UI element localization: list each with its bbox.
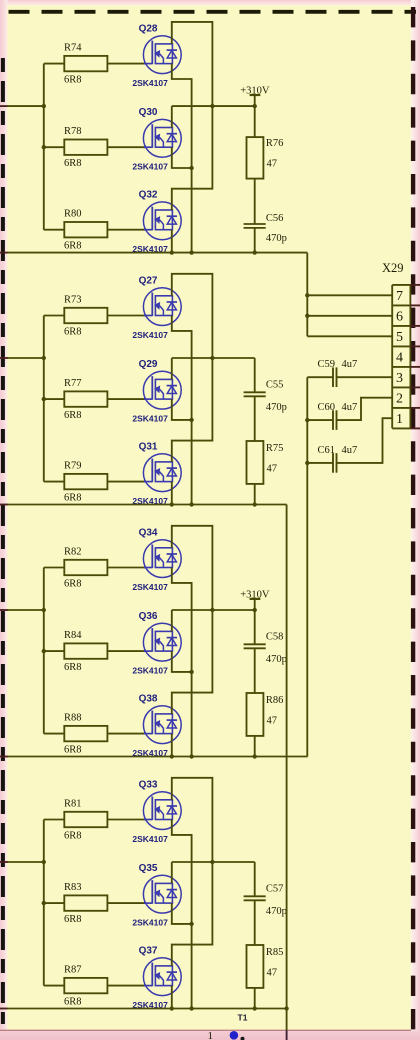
wire snubber stem group 1 <box>254 106 256 137</box>
capacitor C57 470p <box>244 883 287 916</box>
wire drain rail group 2 <box>171 358 173 379</box>
wire drain bus group 2 <box>172 274 215 462</box>
svg-text:Q28: Q28 <box>139 23 158 34</box>
wire R73 left <box>44 315 65 317</box>
svg-text:R87: R87 <box>64 965 82 976</box>
svg-text:470p: 470p <box>266 233 287 244</box>
transistor Q37 2SK4107 <box>132 945 181 1010</box>
wire R76 to C56 <box>254 179 256 224</box>
wire node B separator group 3 <box>0 756 308 758</box>
svg-text:C58: C58 <box>266 631 284 642</box>
svg-text:Q32: Q32 <box>139 190 158 201</box>
wire C61 to pin 1 <box>337 418 393 463</box>
svg-text:6R8: 6R8 <box>64 326 82 337</box>
svg-text:2SK4107: 2SK4107 <box>132 330 168 340</box>
svg-text:6R8: 6R8 <box>64 493 82 504</box>
svg-text:470p: 470p <box>266 654 287 665</box>
svg-text:Q35: Q35 <box>139 863 158 874</box>
wire R73 to gate <box>107 315 145 317</box>
svg-text:2SK4107: 2SK4107 <box>132 665 168 675</box>
wire R82 to gate <box>107 567 145 569</box>
power +310V group 1 <box>240 86 270 109</box>
svg-text:R79: R79 <box>64 461 82 472</box>
resistor R73 <box>64 295 107 338</box>
wire snubber stem group 3 <box>254 610 256 644</box>
connector X29 <box>382 261 420 428</box>
wire source chain group 1 <box>170 64 194 255</box>
svg-text:2SK4107: 2SK4107 <box>132 582 168 592</box>
resistor R79 <box>64 461 107 504</box>
transistor Q35 2SK4107 <box>132 863 181 928</box>
svg-text:R76: R76 <box>266 138 284 149</box>
svg-text:+310V: +310V <box>240 590 270 601</box>
wire node A separator group 1 <box>0 252 307 254</box>
wire gate drive input group 2 <box>0 357 44 359</box>
svg-text:2SK4107: 2SK4107 <box>132 834 168 844</box>
transistor Q29 2SK4107 <box>132 359 181 424</box>
svg-text:5: 5 <box>396 330 403 345</box>
transformer T1 polarity dot <box>230 1031 239 1040</box>
wire C60 to pin 2 <box>337 398 393 420</box>
svg-text:47: 47 <box>267 463 278 474</box>
svg-text:1: 1 <box>208 1030 214 1040</box>
wire R81 to gate <box>107 819 145 821</box>
svg-text:2SK4107: 2SK4107 <box>132 413 168 423</box>
resistor R76 47 <box>247 137 284 179</box>
wire pin 7 <box>307 294 392 296</box>
wire ground separator group 4 <box>0 1006 289 1010</box>
node gate bus group 3 <box>42 568 46 734</box>
wire drain rail group 4 <box>171 862 173 883</box>
resistor R85 47 <box>247 945 284 988</box>
schematic frame dashed border right <box>411 7 415 1031</box>
resistor R81 <box>64 799 107 842</box>
wire R74 to gate <box>107 63 145 65</box>
svg-text:7: 7 <box>396 289 403 304</box>
svg-text:Q29: Q29 <box>139 359 158 370</box>
wire C61 left <box>307 462 333 464</box>
svg-text:6R8: 6R8 <box>64 830 82 841</box>
svg-text:R86: R86 <box>266 695 284 706</box>
wire R74 left <box>44 63 65 65</box>
wire R79 left <box>44 481 65 483</box>
wire R75 to separator <box>253 484 257 507</box>
wire separator group 2 <box>0 504 287 506</box>
resistor R82 <box>64 547 107 590</box>
svg-text:470p: 470p <box>266 906 287 917</box>
wire R84 to gate <box>107 650 145 652</box>
svg-text:R84: R84 <box>64 630 82 641</box>
resistor R86 47 <box>247 693 284 736</box>
capacitor C58 470p <box>244 631 287 664</box>
capacitor C61 4u7 <box>318 445 358 473</box>
wire drain bus group 3 <box>172 526 215 714</box>
svg-text:R73: R73 <box>64 295 82 306</box>
transistor Q28 2SK4107 <box>132 23 181 88</box>
wire drain rail group 1 <box>171 106 173 127</box>
svg-text:C61: C61 <box>318 445 336 456</box>
svg-text:4: 4 <box>396 350 403 365</box>
svg-text:Q33: Q33 <box>139 779 158 790</box>
svg-text:47: 47 <box>267 159 278 170</box>
resistor R77 <box>64 378 107 421</box>
svg-text:470p: 470p <box>266 402 287 413</box>
wire C57 to R85 <box>254 900 256 945</box>
svg-text:6R8: 6R8 <box>64 410 82 421</box>
wire C60 left <box>307 419 333 421</box>
svg-text:4u7: 4u7 <box>342 359 358 370</box>
wire drain bus group 1 <box>172 22 215 210</box>
node B capacitor bus <box>305 377 309 756</box>
svg-text:R85: R85 <box>266 947 284 958</box>
wire snubber stem group 2 <box>254 358 256 392</box>
wire pin 6 <box>307 315 392 317</box>
svg-text:R88: R88 <box>64 713 82 724</box>
node gate bus group 2 <box>42 316 46 482</box>
wire R87 left <box>44 985 65 987</box>
svg-text:Q34: Q34 <box>139 527 158 538</box>
wire R82 left <box>44 567 65 569</box>
node A bus to pins 7 6 5 <box>305 253 309 337</box>
resistor R80 <box>64 209 107 252</box>
svg-text:6R8: 6R8 <box>64 997 82 1008</box>
wire R81 left <box>44 819 65 821</box>
node gate bus group 4 <box>42 820 46 986</box>
wire source chain group 3 <box>170 568 194 759</box>
wire R86 to separator <box>253 736 257 759</box>
wire R88 left <box>44 733 65 735</box>
svg-text:3: 3 <box>396 371 403 386</box>
wire R78 left <box>44 146 65 148</box>
svg-text:X29: X29 <box>382 261 404 275</box>
svg-text:C57: C57 <box>266 883 284 894</box>
wire R83 left <box>44 902 65 904</box>
wire gate drive input group 4 <box>0 861 44 863</box>
wire C59 to pin 3 <box>337 376 393 378</box>
transistor Q38 2SK4107 <box>132 693 181 758</box>
transistor Q31 2SK4107 <box>132 441 181 506</box>
svg-text:Q38: Q38 <box>139 693 158 704</box>
resistor R84 <box>64 630 107 673</box>
svg-text:6R8: 6R8 <box>64 158 82 169</box>
transistor Q33 2SK4107 <box>132 779 181 844</box>
wire C56 to separator <box>253 228 257 255</box>
svg-text:C59: C59 <box>318 359 336 370</box>
svg-text:R83: R83 <box>64 882 82 893</box>
wire source chain group 2 <box>170 316 194 507</box>
schematic frame dashed border left <box>1 58 5 1024</box>
svg-text:Q30: Q30 <box>139 107 158 118</box>
wire snubber stem group 4 <box>254 862 256 896</box>
wire C58 to R86 <box>254 648 256 693</box>
node gate bus group 1 <box>42 64 46 230</box>
svg-text:R74: R74 <box>64 43 82 54</box>
wire gate drive input group 1 <box>0 105 44 107</box>
resistor R75 47 <box>247 441 284 484</box>
svg-text:4u7: 4u7 <box>342 402 358 413</box>
svg-text:6R8: 6R8 <box>64 745 82 756</box>
svg-text:6: 6 <box>396 309 403 324</box>
svg-text:C55: C55 <box>266 379 284 390</box>
wire gate drive input group 3 <box>0 609 44 611</box>
wire R84 left <box>44 650 65 652</box>
wire R80 left <box>44 229 65 231</box>
svg-text:C60: C60 <box>318 402 336 413</box>
svg-text:6R8: 6R8 <box>64 75 82 86</box>
wire drain bus group 4 <box>172 778 215 966</box>
svg-text:6R8: 6R8 <box>64 241 82 252</box>
svg-text:Q27: Q27 <box>139 275 158 286</box>
resistor R74 <box>64 43 107 86</box>
wire C59 left <box>307 376 333 378</box>
resistor R87 <box>64 965 107 1008</box>
capacitor C56 470p <box>244 213 287 244</box>
svg-text:6R8: 6R8 <box>64 914 82 925</box>
schematic frame dashed border top <box>9 10 417 14</box>
resistor R88 <box>64 713 107 756</box>
transistor Q32 2SK4107 <box>132 190 181 255</box>
svg-text:47: 47 <box>267 715 278 726</box>
svg-text:47: 47 <box>267 967 278 978</box>
svg-text:R77: R77 <box>64 378 82 389</box>
svg-text:C56: C56 <box>266 213 284 224</box>
wire R78 to gate <box>107 146 145 148</box>
wire C55 to R75 <box>254 396 256 441</box>
svg-text:+310V: +310V <box>240 86 270 97</box>
svg-text:R80: R80 <box>64 209 82 220</box>
power +310V group 3 <box>240 590 270 613</box>
svg-text:R75: R75 <box>266 443 284 454</box>
svg-text:R82: R82 <box>64 547 82 558</box>
wire source chain group 4 <box>170 820 194 1011</box>
resistor R78 <box>64 126 107 169</box>
svg-text:R78: R78 <box>64 126 82 137</box>
svg-text:4u7: 4u7 <box>342 445 358 456</box>
wire R88 to gate <box>107 733 145 735</box>
wire R80 to gate <box>107 229 145 231</box>
wire group 2 source rail down to transformer <box>286 505 288 1040</box>
transformer T1 terminal dot <box>241 1037 245 1040</box>
wire R77 left <box>44 398 65 400</box>
svg-text:2: 2 <box>396 391 403 406</box>
resistor R83 <box>64 882 107 925</box>
svg-text:6R8: 6R8 <box>64 578 82 589</box>
svg-text:2SK4107: 2SK4107 <box>132 162 168 172</box>
wire R83 to gate <box>107 902 145 904</box>
wire pin 5 <box>307 335 392 337</box>
svg-text:6R8: 6R8 <box>64 662 82 673</box>
wire R87 to gate <box>107 985 145 987</box>
wire R85 to separator <box>253 988 257 1011</box>
wire drain rail group 3 <box>171 610 173 631</box>
svg-text:1: 1 <box>396 412 403 427</box>
svg-text:T1: T1 <box>238 1013 248 1023</box>
transistor Q30 2SK4107 <box>132 107 181 172</box>
transistor Q34 2SK4107 <box>132 527 181 592</box>
wire R79 to gate <box>107 481 145 483</box>
svg-text:Q37: Q37 <box>139 945 158 956</box>
svg-text:2SK4107: 2SK4107 <box>132 78 168 88</box>
capacitor C55 470p <box>244 379 287 412</box>
capacitor C60 4u7 <box>318 402 358 430</box>
transistor Q36 2SK4107 <box>132 611 181 676</box>
wire R77 to gate <box>107 398 145 400</box>
svg-text:2SK4107: 2SK4107 <box>132 917 168 927</box>
svg-text:Q36: Q36 <box>139 611 158 622</box>
capacitor C59 4u7 <box>318 359 358 387</box>
svg-text:R81: R81 <box>64 799 82 810</box>
transistor Q27 2SK4107 <box>132 275 181 340</box>
svg-text:Q31: Q31 <box>139 441 158 452</box>
